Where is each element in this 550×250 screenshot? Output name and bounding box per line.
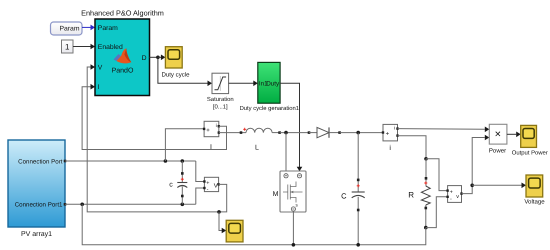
svg-text:V: V — [98, 64, 103, 71]
capacitor C — [341, 133, 365, 245]
svg-text:×: × — [495, 128, 501, 140]
current meter i (output side) — [382, 124, 399, 151]
saturation block — [207, 73, 234, 110]
svg-text:Duty: Duty — [266, 81, 280, 88]
svg-text:Param: Param — [59, 25, 79, 32]
ground rail — [82, 204, 426, 245]
junction R bottom — [424, 226, 428, 230]
junction PV+ to cap c — [181, 159, 185, 163]
wire PV+ down to v+ — [196, 161, 205, 182]
wire junction to Duty cycle scope — [158, 55, 166, 61]
svg-text:-: - — [450, 197, 452, 203]
svg-text:Enhanced P&O Algorithm: Enhanced P&O Algorithm — [81, 8, 164, 17]
MATLAB membrane logo — [114, 48, 132, 63]
junction rail C bottom — [356, 243, 360, 247]
svg-text:[0...1]: [0...1] — [213, 103, 228, 110]
svg-text:i: i — [216, 123, 217, 129]
wire I- to inductor — [219, 132, 246, 134]
svg-text:+: + — [386, 132, 390, 138]
junction on D wire — [156, 56, 160, 60]
junction on v feedback — [217, 210, 221, 214]
wire i signal to Power — [398, 127, 490, 133]
junction rail MOSFET source — [292, 243, 296, 247]
svg-text:L: L — [255, 145, 259, 152]
red plus near inductor — [243, 128, 246, 131]
svg-text:R: R — [408, 190, 414, 199]
svg-text:V: V — [214, 183, 218, 190]
svg-text:v: v — [456, 194, 459, 200]
svg-text:+: + — [206, 128, 210, 134]
voltage meter v (output side) — [446, 186, 462, 203]
svg-text:Connection Port1: Connection Port1 — [15, 202, 63, 209]
svg-text:Enabled: Enabled — [98, 44, 123, 51]
junction drain — [284, 131, 288, 135]
scope Duty cycle — [161, 47, 190, 79]
svg-text:Power: Power — [489, 148, 506, 155]
junction PV- branch to ground rail — [80, 203, 84, 207]
scope Output Power — [512, 125, 548, 156]
MATLAB function block U1 PandO — [95, 19, 150, 96]
wire MOSFET source to rail — [292, 211, 294, 245]
wire junction down to scope — [219, 212, 226, 233]
svg-text:C: C — [341, 191, 347, 200]
terminal pad inductor left — [240, 131, 243, 134]
block Param (tag) — [51, 22, 83, 35]
wire Saturation to Duty generator — [229, 81, 258, 87]
wire diode to i meter — [340, 132, 383, 134]
subsystem PV array1 — [8, 140, 66, 238]
svg-text:I: I — [98, 84, 100, 91]
arrow into I port — [91, 84, 96, 90]
svg-text:-: - — [207, 187, 209, 193]
junction v out to Voltage scope — [470, 184, 474, 188]
wire PV+ node — [65, 160, 196, 162]
wire v out to Power input 2 — [462, 135, 490, 194]
svg-text:Saturation: Saturation — [207, 96, 234, 103]
wire to Voltage scope — [472, 183, 526, 189]
svg-text:Voltage: Voltage — [524, 199, 545, 206]
svg-text:Param: Param — [98, 25, 118, 32]
svg-text:Connection Port: Connection Port — [18, 158, 63, 165]
wire v out down and left to V feedback — [87, 67, 227, 212]
svg-text:Duty cycle: Duty cycle — [161, 71, 190, 78]
svg-text:+: + — [450, 190, 453, 196]
scope Voltage — [524, 175, 545, 206]
junction R node — [424, 157, 428, 161]
wire drain riser — [285, 133, 287, 174]
svg-text:PandO: PandO — [112, 66, 134, 74]
voltage meter v (PV side) — [203, 177, 220, 193]
wire PV- up to v- — [196, 188, 205, 204]
svg-text:Output Power: Output Power — [512, 150, 548, 157]
svg-text:PV array1: PV array1 — [21, 231, 52, 238]
wire D output to junction — [150, 56, 158, 58]
subsystem Duty cycle genaration1 — [240, 62, 299, 112]
svg-text:c: c — [169, 182, 173, 189]
wire node to v+ riser — [426, 159, 448, 191]
wire Duty out to MOSFET gate — [280, 83, 302, 171]
current meter I (PV side) — [203, 121, 220, 151]
wire riser to I meter — [165, 129, 204, 161]
svg-text:Duty cycle genaration1: Duty cycle genaration1 — [240, 105, 299, 112]
capacitor c — [169, 161, 187, 204]
scope (PV voltage) — [226, 220, 243, 242]
wire PV- node — [65, 203, 196, 205]
wire 1 to Enabled — [73, 44, 95, 50]
junction PV+ to I-meter riser — [164, 159, 168, 163]
wire Param to P&O (blue) — [82, 25, 95, 31]
inductor L — [246, 128, 281, 151]
svg-text:M: M — [273, 191, 279, 198]
arrow into V port — [91, 64, 96, 70]
wire I signal feedback to I port — [82, 87, 226, 150]
wire L to diode — [280, 132, 309, 134]
junction C top — [356, 131, 360, 135]
constant block 1 — [62, 40, 74, 53]
svg-text:D: D — [142, 55, 147, 62]
svg-text:i: i — [394, 126, 395, 132]
wire R bottom to v- — [426, 197, 448, 228]
junction PV- to cap c bottom — [181, 203, 185, 207]
wire i- to R node — [398, 136, 427, 159]
svg-text:1: 1 — [65, 43, 70, 52]
product block Power — [489, 124, 507, 154]
MOSFET M — [273, 171, 306, 212]
wire junction down to Saturation — [158, 57, 212, 86]
resistor R — [408, 159, 430, 228]
diode D1 — [308, 127, 341, 137]
wire Power out to Output Power scope — [507, 132, 521, 138]
svg-text:+: + — [206, 181, 209, 187]
